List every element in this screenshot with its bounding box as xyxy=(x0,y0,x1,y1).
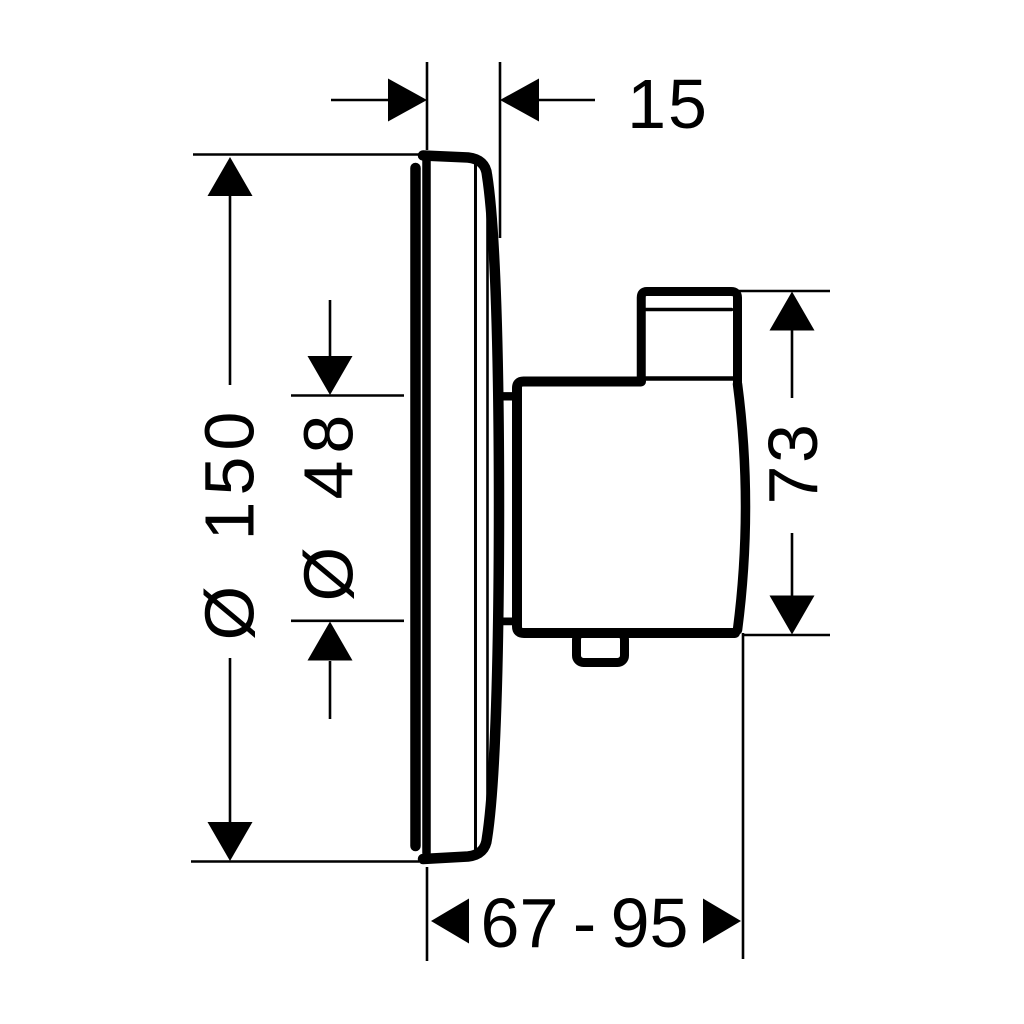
svg-text:67 - 95: 67 - 95 xyxy=(481,884,689,962)
svg-text:Ø 150: Ø 150 xyxy=(191,406,269,641)
svg-text:73: 73 xyxy=(754,422,832,505)
svg-text:15: 15 xyxy=(627,65,709,143)
svg-text:Ø 48: Ø 48 xyxy=(290,408,368,602)
